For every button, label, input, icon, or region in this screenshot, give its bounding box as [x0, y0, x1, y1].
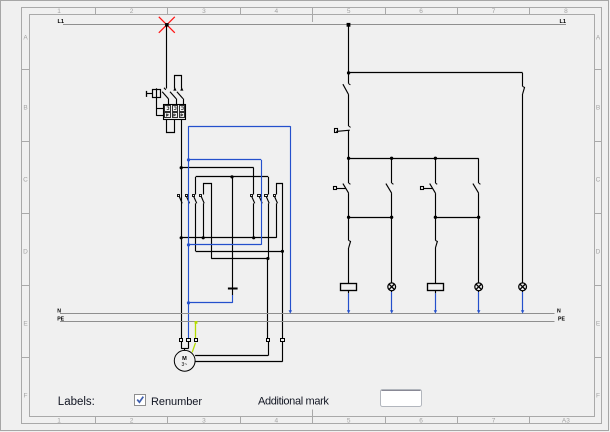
svg-text:5: 5 [347, 8, 351, 15]
svg-text:3: 3 [202, 417, 206, 424]
svg-text:PE: PE [558, 316, 565, 322]
svg-text:Additional mark: Additional mark [258, 396, 329, 408]
svg-text:4: 4 [274, 8, 278, 15]
svg-text:F: F [24, 392, 28, 399]
svg-text:7: 7 [492, 417, 496, 424]
svg-text:E: E [23, 320, 28, 327]
svg-text:2: 2 [130, 417, 134, 424]
svg-text:4: 4 [274, 417, 278, 424]
svg-text:5: 5 [347, 417, 351, 424]
svg-text:L1: L1 [58, 19, 65, 25]
svg-text:6: 6 [419, 417, 423, 424]
svg-text:E: E [596, 320, 601, 327]
svg-text:PE: PE [57, 317, 64, 323]
svg-text:N: N [57, 309, 61, 315]
svg-text:8: 8 [564, 8, 568, 15]
svg-text:C: C [596, 176, 601, 183]
svg-text:Renumber: Renumber [151, 396, 202, 408]
svg-text:3~: 3~ [181, 362, 187, 368]
svg-text:D: D [23, 248, 28, 255]
svg-text:N: N [557, 309, 561, 315]
svg-text:B: B [23, 104, 27, 111]
svg-text:F: F [596, 392, 600, 399]
svg-text:1: 1 [57, 8, 61, 15]
svg-text:A: A [23, 34, 28, 41]
svg-text:1: 1 [57, 417, 61, 424]
svg-text:Labels:: Labels: [58, 396, 95, 408]
svg-text:D: D [596, 248, 601, 255]
svg-text:3: 3 [202, 8, 206, 15]
svg-text:7: 7 [492, 8, 496, 15]
svg-text:L1: L1 [559, 19, 566, 25]
svg-text:A: A [596, 34, 601, 41]
svg-text:C: C [23, 176, 28, 183]
svg-text:2: 2 [130, 8, 134, 15]
svg-text:A3: A3 [562, 417, 570, 424]
svg-text:6: 6 [419, 8, 423, 15]
svg-text:B: B [596, 104, 600, 111]
